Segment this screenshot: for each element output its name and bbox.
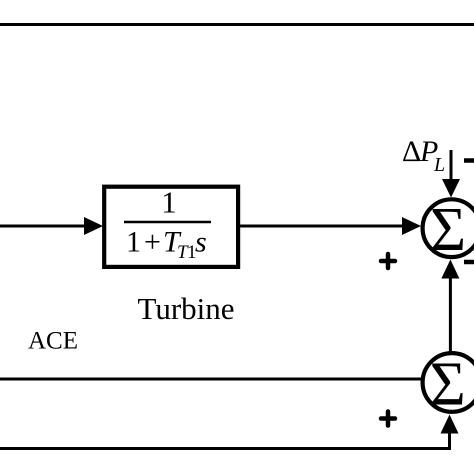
wire turbine block to summer U1	[238, 225, 403, 228]
svg-text:L: L	[433, 154, 445, 176]
svg-text:Σ: Σ	[430, 350, 466, 418]
minus sign top right	[464, 158, 474, 163]
minus sign right of feedback arrow	[464, 260, 474, 265]
svg-text:1: 1	[126, 226, 141, 259]
svg-text:Δ: Δ	[402, 135, 421, 168]
svg-text:s: s	[195, 226, 207, 259]
block turbine 1/(1+T_T1 s)	[104, 185, 238, 267]
wire bottom feedback into summer U2	[0, 434, 450, 449]
plus sign at summer U2 input	[381, 412, 395, 426]
svg-text:Σ: Σ	[430, 196, 466, 264]
wire top horizontal	[0, 23, 474, 26]
svg-text:+: +	[144, 226, 161, 259]
wire ACE line into summer U2	[0, 378, 424, 381]
wire delta P_L arrow into summer U1	[450, 150, 453, 180]
summer U2 (lower sigma)	[423, 350, 474, 418]
summer U1 (upper sigma)	[423, 196, 474, 264]
svg-text:1: 1	[161, 185, 177, 220]
wire input to turbine block	[0, 225, 87, 228]
svg-text:ACE: ACE	[28, 328, 78, 355]
wire summer U2 up to summer U1	[449, 278, 452, 352]
plus sign at summer U1 input	[381, 254, 395, 268]
label delta P_L	[402, 135, 445, 176]
svg-text:Turbine: Turbine	[137, 291, 234, 326]
